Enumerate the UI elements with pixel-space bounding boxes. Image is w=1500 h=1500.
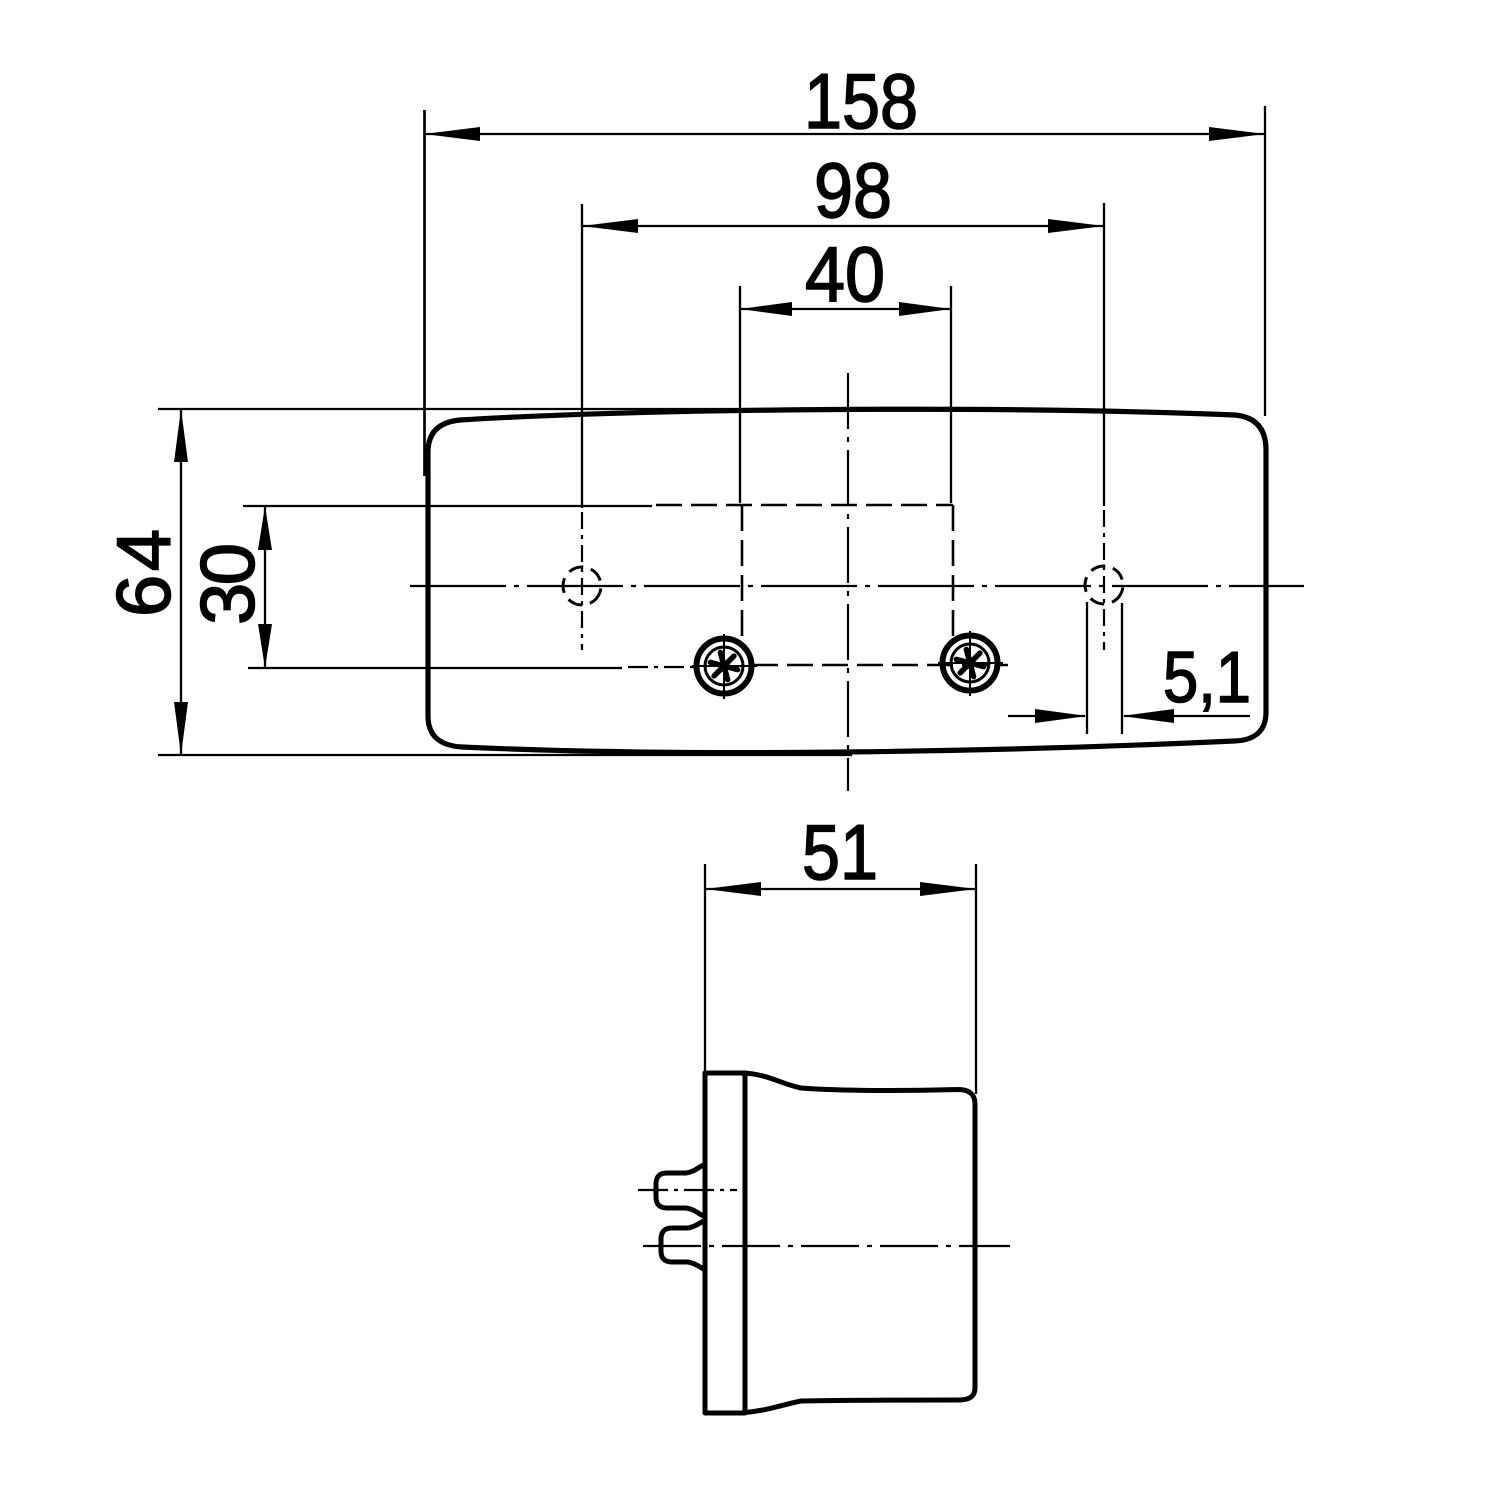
- dimension 98 right extension line: [1103, 203, 1105, 506]
- side view: mounting flange: [705, 1073, 745, 1413]
- dimension 98 right arrowhead: [1048, 219, 1104, 233]
- dimension 40 left extension line: [739, 286, 741, 503]
- dimension 5,1 right arrowhead: [1122, 709, 1174, 723]
- dimension 64 top reference line: [158, 408, 870, 410]
- slot right line: [1121, 603, 1123, 734]
- pin 2 centerline (long chain through body): [643, 1245, 1010, 1247]
- dimension 64 top arrowhead: [174, 409, 188, 462]
- dimension 51 left arrowhead: [705, 882, 761, 896]
- dimension 30 bottom reference line: [248, 667, 622, 669]
- svg-text:40: 40: [805, 230, 885, 318]
- svg-text:30: 30: [186, 543, 271, 625]
- mounting hole left (dashed circle): [558, 562, 607, 611]
- hidden window dashed right side: [952, 505, 955, 637]
- dimension 5,1 left arrow line: [1008, 715, 1085, 717]
- hidden dashed line through screws: [752, 664, 1008, 667]
- dimension 30 top reference line: [243, 505, 652, 507]
- dimension 51 right arrowhead: [920, 882, 976, 896]
- dimension 158 dim line: [424, 133, 1265, 135]
- dimension 30 bottom reference chain to screw: [628, 666, 700, 668]
- dimension 5,1 left arrowhead: [1035, 709, 1087, 723]
- dimension 64 bottom arrowhead: [174, 702, 188, 755]
- svg-text:158: 158: [804, 57, 918, 145]
- horizontal centerline: [410, 585, 1304, 587]
- screw left inner ring: [705, 647, 743, 685]
- dimension 5,1 right arrow line: [1124, 715, 1250, 717]
- dimension 158 right extension line: [1264, 106, 1266, 416]
- side view: pin 1 (upper terminal): [656, 1164, 707, 1218]
- screw left outer ring: [697, 639, 752, 694]
- side view: dimension 51 dim line: [705, 888, 976, 890]
- dimension 30 top arrowhead: [258, 506, 272, 550]
- dimension 30 bottom arrowhead: [258, 624, 272, 668]
- dimension 64 bottom reference line: [158, 754, 852, 756]
- slot left line: [1086, 602, 1088, 734]
- dimension 158 right arrowhead: [1209, 127, 1265, 141]
- dimension 40 right arrowhead: [899, 302, 951, 316]
- dimension 40 dim line: [740, 308, 951, 310]
- dimension 98 right extension chain through hole: [1103, 510, 1105, 650]
- dimension 40 right extension line: [950, 286, 952, 503]
- svg-text:5,1: 5,1: [1163, 638, 1251, 718]
- lamp body outline (rear view): [428, 409, 1266, 752]
- dimension 98 left extension line: [581, 204, 583, 508]
- dimension 30 dim line: [264, 506, 266, 668]
- side view: lamp body profile: [745, 1073, 975, 1413]
- hidden window dashed left side: [741, 505, 744, 640]
- dimension 40 left arrowhead: [740, 302, 792, 316]
- vertical centerline: [847, 373, 849, 791]
- svg-text:98: 98: [814, 146, 892, 234]
- dimension 158 left arrowhead: [424, 127, 480, 141]
- screw left centerline cross: [723, 634, 725, 699]
- dimension 98 left arrowhead: [582, 219, 638, 233]
- svg-text:64: 64: [102, 529, 187, 617]
- svg-text:51: 51: [802, 808, 878, 896]
- dimension 158 left extension line: [423, 110, 426, 476]
- screw left star: [710, 652, 737, 679]
- side view: pin 2 (lower terminal): [661, 1220, 707, 1271]
- hidden window dashed rectangle top edge: [656, 504, 953, 507]
- dimension 51 left extension line: [704, 864, 706, 1071]
- pin 1 centerline: [638, 1189, 737, 1191]
- dimension 51 right extension line: [975, 864, 977, 1094]
- dimension 98 dim line: [582, 225, 1104, 227]
- screw right outer ring: [943, 636, 998, 691]
- dimension 64 dim line: [180, 409, 182, 755]
- screw right star: [956, 649, 983, 676]
- screw right inner ring: [951, 644, 989, 682]
- dimension 98 left extension chain through hole: [581, 512, 583, 650]
- mounting hole right (dashed circle): [1080, 561, 1129, 610]
- screw right centerline cross: [969, 631, 971, 696]
